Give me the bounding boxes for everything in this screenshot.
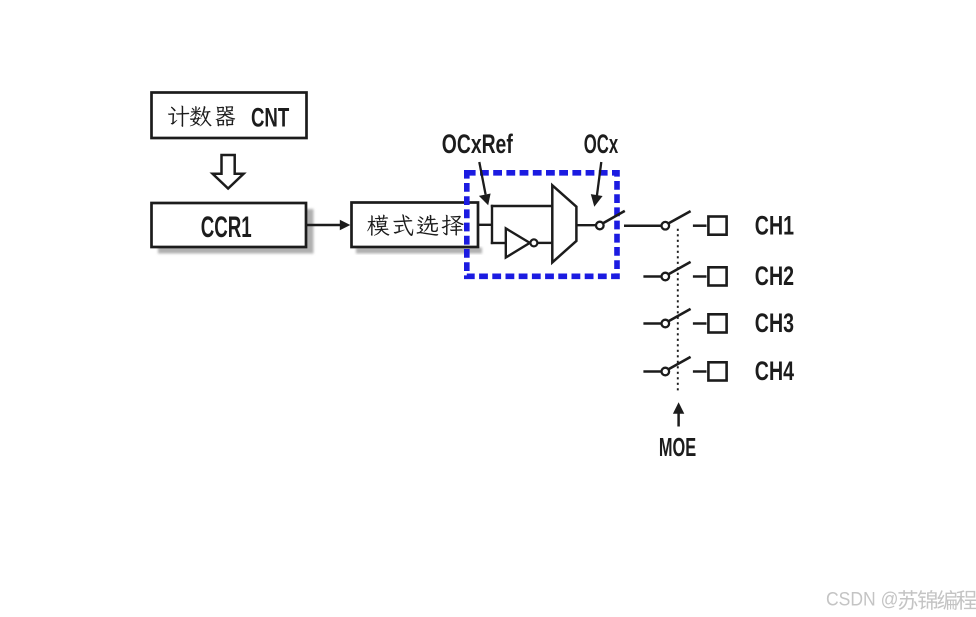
- svg-text:CSDN @: CSDN @: [826, 588, 898, 610]
- wire CCR1 to mode-select arrow: [307, 220, 351, 231]
- switch CH3: [662, 309, 691, 327]
- wire direct branch to mux: [491, 205, 553, 207]
- svg-text:CH1: CH1: [755, 210, 794, 240]
- signal label MOE: [659, 432, 696, 462]
- svg-text:CH2: CH2: [755, 261, 794, 291]
- label CH1: [755, 210, 794, 240]
- pad CH4: [708, 362, 726, 380]
- block mode select 模式选择: [352, 203, 479, 248]
- CCR1 box shadow: [158, 209, 314, 254]
- wire input CH4 switch: [643, 370, 661, 373]
- svg-text:MOE: MOE: [659, 432, 696, 462]
- svg-text:CCR1: CCR1: [201, 212, 252, 244]
- MOE arrow: [673, 402, 684, 426]
- wire CH2 switch to pad: [693, 275, 707, 278]
- wire CH4 switch to pad: [693, 370, 707, 373]
- MOE dotted control line: [677, 229, 679, 391]
- pad CH1: [708, 217, 726, 235]
- block arrow CNT to CCR1: [213, 155, 244, 189]
- wire CH1 switch to pad: [693, 224, 707, 227]
- switch CH4: [662, 357, 691, 375]
- pad CH2: [708, 267, 726, 285]
- label 计数器 CNT: [168, 102, 289, 132]
- watermark CSDN @苏锦编程: [826, 588, 976, 610]
- switch OCx: [596, 211, 625, 229]
- wire inverted branch to inverter: [491, 242, 506, 244]
- block counter CNT: [152, 93, 307, 139]
- register CCR1: [152, 203, 307, 247]
- net label OCxRef: [442, 129, 513, 159]
- OCxRef pointer arrow: [479, 162, 491, 205]
- wire inverter to mux: [538, 242, 554, 244]
- wire CH3 switch to pad: [693, 322, 707, 325]
- inverter gate: [506, 228, 538, 257]
- node branch vertical wire: [491, 205, 493, 244]
- switch CH2: [662, 262, 691, 280]
- net label OCx: [584, 129, 619, 159]
- pad CH3: [708, 314, 726, 332]
- svg-text:CH4: CH4: [755, 356, 794, 386]
- wire mode-select to OC logic: [478, 224, 492, 226]
- svg-text:CNT: CNT: [251, 102, 289, 132]
- svg-text:OCxRef: OCxRef: [442, 129, 513, 159]
- label CH2: [755, 261, 794, 291]
- label CH4: [755, 356, 794, 386]
- wire input CH2 switch: [643, 275, 661, 278]
- svg-text:CH3: CH3: [755, 308, 794, 338]
- mode-select box shadow: [356, 248, 482, 254]
- label CH3: [755, 308, 794, 338]
- output mux trapezoid: [552, 185, 576, 262]
- switch CH1: [662, 211, 691, 229]
- output enable circuit dashed box: [467, 173, 617, 276]
- wire mux to OCx switch: [576, 224, 595, 226]
- svg-text:OCx: OCx: [584, 129, 619, 159]
- wire input CH3 switch: [643, 322, 661, 325]
- OCx pointer arrow: [591, 162, 603, 207]
- wire to CH1 switch: [624, 224, 661, 227]
